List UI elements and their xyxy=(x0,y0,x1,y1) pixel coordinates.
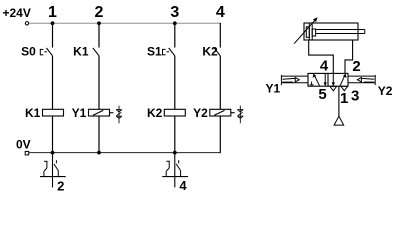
svg-text:3: 3 xyxy=(351,87,359,104)
pipe cylinder left port to valve port 4 xyxy=(309,40,334,73)
cylinder piston xyxy=(309,23,312,40)
relay K2 contact cross-reference pole xyxy=(174,153,176,188)
valve right position path 1-2 xyxy=(340,74,345,86)
pipe valve port 1 to supply xyxy=(338,86,340,116)
contact K2 NO blade xyxy=(214,48,220,56)
cylinder 1A body xyxy=(304,23,358,40)
svg-text:K1: K1 xyxy=(73,45,89,59)
valve pilot solenoid right (Y2) xyxy=(348,75,375,85)
wire rung1 lower xyxy=(52,116,54,153)
solenoid valve coil Y2 xyxy=(210,109,231,116)
svg-text:K2: K2 xyxy=(202,45,218,59)
valve pilot solenoid left (Y1) xyxy=(281,75,308,85)
valve exhaust port 5 silencer xyxy=(330,86,337,90)
relay K2 NC mini contact xyxy=(166,161,170,176)
relay K2 NO mini contact xyxy=(176,160,180,176)
valve left position blocked port xyxy=(310,82,314,85)
wire rung2 lower xyxy=(98,116,100,153)
relay K2 contact cross-reference bar xyxy=(162,176,188,178)
solenoid valve coil Y1 xyxy=(89,109,110,116)
relay K1 contact cross-reference pole xyxy=(52,153,54,188)
terminal 0V xyxy=(25,151,29,155)
contact K1 NO blade xyxy=(93,48,99,56)
switch S0 NO contact blade xyxy=(46,48,52,56)
svg-text:K2: K2 xyxy=(147,106,163,120)
solenoid Y1 valve actuation symbol xyxy=(116,106,122,124)
svg-text:5: 5 xyxy=(318,86,326,103)
relay K1 NO mini contact xyxy=(54,160,58,176)
switch S0 pushbutton actuator xyxy=(40,49,47,55)
junction rung2/0V xyxy=(97,151,101,155)
wire rung3 lower xyxy=(174,116,176,153)
svg-text:1: 1 xyxy=(340,90,348,107)
valve left position path 2-3 xyxy=(324,73,326,86)
svg-text:Y1: Y1 xyxy=(72,106,87,120)
svg-text:0V: 0V xyxy=(16,137,31,151)
svg-text:4: 4 xyxy=(179,178,187,193)
wire +24V rail xyxy=(29,22,220,24)
wire rung3 upper xyxy=(174,23,176,47)
switch S1 pushbutton actuator xyxy=(163,49,170,55)
svg-text:S0: S0 xyxy=(21,45,36,59)
relay K1 contact cross-reference bar xyxy=(40,176,66,178)
svg-text:4: 4 xyxy=(216,4,225,21)
valve exhaust port 3 silencer xyxy=(341,86,348,90)
cylinder piston rod xyxy=(316,30,365,34)
valve position divider xyxy=(327,73,329,86)
wire rung2 middle xyxy=(98,56,100,110)
cylinder cushion block xyxy=(306,27,309,38)
junction rung3/0V xyxy=(173,151,177,155)
junction rung2/rail xyxy=(97,21,101,25)
relay coil K1 xyxy=(43,109,64,116)
cylinder rod-side cushion block xyxy=(312,29,315,36)
relay coil K2 xyxy=(164,109,185,116)
svg-text:Y2: Y2 xyxy=(193,106,208,120)
svg-text:2: 2 xyxy=(352,58,360,75)
valve 1V 5/2-way body xyxy=(308,73,348,86)
junction rung1/rail xyxy=(51,21,55,25)
svg-text:3: 3 xyxy=(170,4,179,21)
wire rung1 upper xyxy=(52,23,54,47)
wire rung4 middle xyxy=(219,56,221,110)
cylinder adjustable cushioning arrow xyxy=(294,20,315,44)
svg-text:+24V: +24V xyxy=(3,6,31,20)
svg-text:K1: K1 xyxy=(25,106,41,120)
compressed air supply xyxy=(334,116,344,125)
wire rung2 upper xyxy=(98,23,100,47)
svg-text:Y1: Y1 xyxy=(266,82,281,96)
pipe cylinder right port to valve port 2 xyxy=(345,40,353,73)
wire rung4 upper xyxy=(219,23,221,48)
valve left position path 1-4 xyxy=(314,74,320,86)
wire rung1 middle xyxy=(52,56,54,110)
wire rung4 lower xyxy=(219,116,221,153)
valve right position path 4-5 xyxy=(332,73,334,86)
wire Y2 dash to valve symbol xyxy=(231,112,235,114)
svg-text:2: 2 xyxy=(57,178,64,193)
svg-text:S1: S1 xyxy=(147,45,162,59)
junction rung1/0V xyxy=(51,151,55,155)
wire Y1 dash to valve symbol xyxy=(110,112,114,114)
svg-text:1: 1 xyxy=(48,4,57,21)
terminal +24V xyxy=(25,22,28,25)
junction rung3/rail xyxy=(173,21,177,25)
relay K1 NC mini contact xyxy=(44,161,48,176)
switch S1 NO contact blade xyxy=(169,48,175,56)
svg-text:Y2: Y2 xyxy=(378,84,393,98)
svg-text:4: 4 xyxy=(320,57,329,74)
solenoid Y2 valve actuation symbol xyxy=(237,106,243,124)
wire 0V rail xyxy=(29,152,221,154)
wire rung3 middle xyxy=(174,56,176,110)
svg-text:2: 2 xyxy=(95,4,104,21)
